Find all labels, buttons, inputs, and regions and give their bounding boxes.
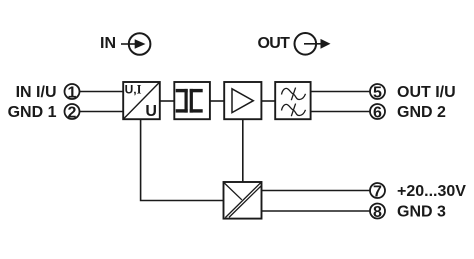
terminal 2 (65, 104, 80, 121)
svg-text:OUT: OUT (258, 35, 291, 52)
svg-text:+20...30V: +20...30V (397, 183, 466, 200)
wire U2 to terminal 7 (262, 190, 371, 192)
terminal 6 (370, 104, 385, 121)
IN direction symbol (121, 33, 150, 55)
terminal 8 (370, 204, 385, 221)
transformer T1 (galvanic isolation) (174, 82, 210, 119)
svg-text:U,I: U,I (125, 82, 142, 96)
svg-text:2: 2 (68, 104, 77, 121)
svg-text:6: 6 (373, 104, 382, 121)
svg-text:U: U (145, 103, 157, 120)
svg-text:GND 1: GND 1 (8, 104, 57, 121)
wire A1 to filter F1 (261, 100, 275, 102)
filter F1 (low-pass) (275, 82, 310, 119)
input converter U1 (U,I to U) (123, 82, 160, 120)
svg-text:OUT I/U: OUT I/U (397, 84, 456, 101)
amplifier A1 (224, 82, 261, 119)
svg-text:1: 1 (68, 84, 77, 101)
svg-text:IN I/U: IN I/U (16, 84, 57, 101)
wire U2 to terminal 8 (262, 210, 371, 212)
terminal 7 (370, 183, 385, 200)
svg-text:8: 8 (373, 204, 382, 221)
terminal 5 (370, 84, 385, 101)
svg-text:5: 5 (373, 84, 382, 101)
wire F1 to terminal 6 (311, 111, 370, 113)
wire terminal 2 to converter U1 (80, 111, 123, 113)
wire A1 bottom to DC/DC converter U2 top (242, 119, 244, 182)
wire F1 to terminal 5 (311, 91, 370, 93)
svg-text:GND 3: GND 3 (397, 204, 446, 221)
OUT direction symbol (295, 33, 331, 55)
wire U1 bottom to DC/DC converter U2 (141, 119, 224, 200)
wire terminal 1 to converter U1 (80, 91, 123, 93)
svg-text:IN: IN (100, 35, 116, 52)
terminal 1 (65, 84, 80, 101)
svg-text:GND 2: GND 2 (397, 104, 446, 121)
wire T1 to amplifier A1 (210, 100, 224, 102)
DC/DC converter U2 (224, 182, 262, 219)
wire U1 to transformer T1 (160, 100, 175, 102)
svg-text:7: 7 (373, 183, 382, 200)
